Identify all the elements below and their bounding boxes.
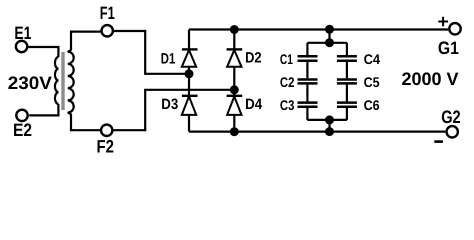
svg-text:C1: C1 <box>280 51 293 67</box>
capacitor C3 <box>306 85 308 102</box>
svg-text:D4: D4 <box>245 96 263 113</box>
top rail (+) <box>189 28 448 30</box>
wire D1 anode to node A <box>188 67 190 96</box>
svg-text:D1: D1 <box>161 50 176 67</box>
wire F1 to bridge node A <box>114 31 186 74</box>
wire F2 to bridge node B <box>113 90 232 130</box>
svg-text:C3: C3 <box>280 97 295 113</box>
svg-text:230V: 230V <box>8 73 52 93</box>
wire secondary bottom to F2 <box>68 112 100 130</box>
svg-text:F1: F1 <box>100 3 115 23</box>
terminal E2 <box>16 110 27 121</box>
junction dot bottom rail <box>325 127 334 136</box>
svg-text:F2: F2 <box>97 136 115 156</box>
svg-text:C5: C5 <box>364 74 380 90</box>
wire E1 to transformer primary top <box>29 47 59 57</box>
junction dot cap top <box>325 38 334 47</box>
svg-text:C4: C4 <box>364 51 381 67</box>
terminal E1 <box>16 41 27 52</box>
wire primary bottom to E2 <box>29 104 58 115</box>
cap bank top connector <box>307 42 347 44</box>
svg-text:D2: D2 <box>245 50 262 67</box>
diode D4 <box>227 95 243 97</box>
junction dot cap bottom <box>325 115 334 124</box>
svg-text:G2: G2 <box>441 107 461 127</box>
capacitor bank bottom stub <box>328 120 330 132</box>
capacitor C1 <box>306 43 308 55</box>
capacitor C5 <box>346 62 348 78</box>
minus sign <box>434 140 443 143</box>
junction dot D2 top <box>230 25 239 34</box>
diode D1 <box>188 30 190 50</box>
terminal G2 <box>447 126 458 137</box>
fuse F2 <box>101 125 112 136</box>
svg-text:E1: E1 <box>14 23 31 43</box>
node A junction dot <box>185 69 194 78</box>
svg-text:C6: C6 <box>364 97 380 113</box>
cap bank bottom connector <box>307 119 347 121</box>
plus sign <box>438 17 448 27</box>
diode D3 <box>182 95 198 97</box>
terminal G1 <box>449 23 460 34</box>
svg-text:D3: D3 <box>161 96 178 113</box>
bottom rail (-) <box>189 131 445 133</box>
junction dot top rail <box>325 25 334 34</box>
node B junction dot <box>230 85 239 94</box>
capacitor bank top stub <box>328 29 330 43</box>
capacitor C4 <box>346 43 348 55</box>
svg-text:E2: E2 <box>13 120 32 140</box>
transformer core <box>61 52 64 110</box>
wire secondary top to F1 <box>68 32 101 53</box>
diode D2 <box>233 30 235 50</box>
fuse F1 <box>102 25 113 36</box>
transformer secondary winding <box>68 52 74 113</box>
svg-text:2000 V: 2000 V <box>402 69 459 89</box>
junction dot D4 bottom <box>230 127 239 136</box>
capacitor C2 <box>306 62 308 78</box>
svg-text:G1: G1 <box>438 38 459 58</box>
svg-text:C2: C2 <box>280 74 295 90</box>
capacitor C6 <box>346 85 348 102</box>
wire D2 anode to node B <box>233 67 235 96</box>
transformer primary winding <box>55 57 58 104</box>
